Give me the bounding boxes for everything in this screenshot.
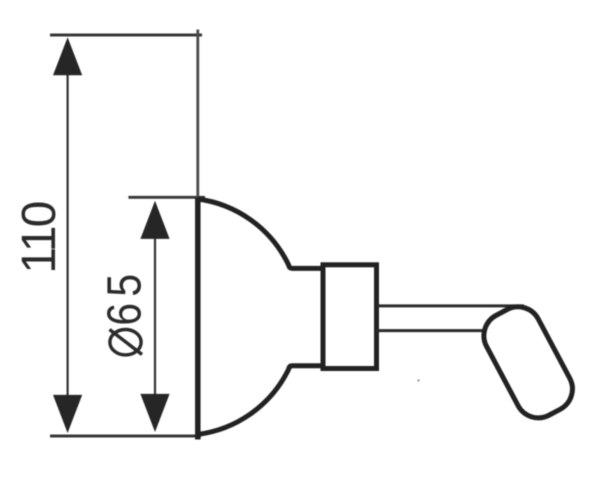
handle dome bottom curve and shoulder: [198, 366, 323, 435]
extension line bottom (110 lower): [50, 435, 201, 438]
arrowhead d65 top: [140, 201, 169, 239]
dimension line 110: [66, 40, 68, 430]
speck: [417, 379, 419, 381]
handle dome top curve and shoulder: [198, 199, 323, 268]
extension line (diameter 65 upper): [128, 196, 205, 199]
handle dome left edge: [195, 198, 201, 440]
diameter symbol ring: [110, 330, 141, 355]
svg-text:110: 110: [13, 202, 66, 273]
dimension line d65: [154, 204, 156, 428]
arrowhead 110 bottom: [53, 395, 82, 433]
diameter symbol slash: [110, 330, 143, 355]
arrowhead 110 top: [53, 37, 82, 75]
lever grip knob: [476, 299, 581, 426]
lever arm bottom line: [377, 329, 485, 332]
extension line top (110 upper): [50, 34, 202, 37]
arrowhead d65 bottom: [140, 394, 169, 432]
lever arm top line: [377, 304, 525, 307]
extension line vertical at handle left edge: [196, 30, 199, 201]
flange rectangle: [323, 265, 377, 369]
svg-text:65: 65: [99, 268, 152, 326]
